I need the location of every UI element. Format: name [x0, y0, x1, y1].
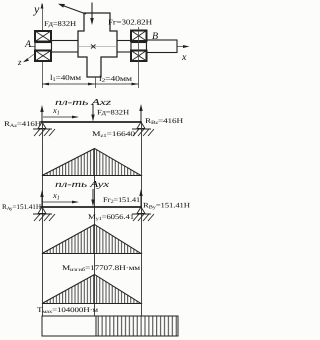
x1 dimension arrow (beam 1)	[43, 116, 79, 119]
force Fd=832N arrow (diagonal, on pulley)	[58, 4, 86, 14]
beam 1 line	[41, 121, 142, 123]
bearing B upper square	[131, 31, 147, 42]
center mark x	[91, 45, 96, 49]
support A hatching (beam 2)	[33, 207, 55, 221]
shaft output stub	[147, 40, 178, 53]
x1 dimension arrow (beam 2)	[43, 201, 79, 204]
centerline through gear	[78, 46, 117, 48]
reference line at support A	[42, 122, 44, 336]
beam 2 line	[41, 206, 142, 208]
support B hatching (beam 1)	[132, 122, 154, 136]
svg-text:l1=40мм: l1=40мм	[50, 73, 81, 83]
gear center extension line	[95, 77, 97, 88]
svg-text:y: y	[33, 2, 40, 16]
torque diagram hatched section	[96, 316, 178, 336]
svg-text:пл-ть Аxz: пл-ть Аxz	[55, 97, 112, 107]
svg-text:Fг2=151.41: Fг2=151.41	[103, 196, 141, 205]
svg-text:Fд=832Н: Fд=832Н	[44, 19, 77, 28]
gear (pulley) on shaft	[78, 13, 117, 77]
shaft left journal	[35, 43, 52, 51]
reference line at load point	[94, 148, 96, 316]
y-axis / bearing A centerline	[41, 3, 44, 89]
support B hatching (beam 2)	[132, 207, 154, 221]
shaft main section	[52, 41, 132, 53]
dimension line l2	[95, 83, 139, 86]
svg-text:Fг=302.82Н: Fг=302.82Н	[108, 18, 153, 27]
torque diagram rectangle (unhatched left part)	[42, 316, 178, 336]
bearing A lower square	[35, 51, 51, 62]
reaction RBy arrow	[139, 189, 142, 207]
bearing B lower square	[131, 51, 147, 62]
support A hatching (beam 1)	[33, 122, 55, 136]
svg-text:x: x	[181, 52, 187, 63]
My bending moment diagram (triangle)	[42, 225, 141, 254]
svg-text:My1=6056.41: My1=6056.41	[88, 213, 135, 222]
reaction RAy arrow	[40, 190, 43, 207]
M_izgib resulting moment diagram (triangle)	[42, 275, 141, 304]
svg-text:RAz=416Н: RAz=416Н	[4, 120, 41, 129]
svg-text:z: z	[17, 57, 22, 67]
force Fg=302.82N arrow (vertical down at gear)	[90, 3, 94, 26]
bearing A upper square	[35, 31, 51, 42]
reaction RBz arrow	[139, 104, 142, 122]
dimension line l1	[42, 83, 95, 86]
z-axis	[23, 46, 46, 63]
force Fg2 arrow on beam 2	[91, 189, 94, 207]
svg-text:A: A	[24, 39, 32, 50]
reaction RAz arrow	[40, 105, 43, 122]
bearing B centerline	[138, 27, 140, 88]
svg-text:Mz1=16640: Mz1=16640	[92, 130, 136, 139]
shaft centerline / x-axis	[29, 45, 190, 48]
svg-text:Fд=832Н: Fд=832Н	[97, 109, 129, 117]
shaft right journal	[131, 43, 147, 51]
reference line at support B	[141, 122, 143, 316]
svg-text:RBz=416Н: RBz=416Н	[145, 117, 183, 126]
svg-text:пл-ть Аух: пл-ть Аух	[55, 179, 109, 189]
force Fd arrow on beam 1	[91, 104, 94, 122]
Mz bending moment diagram (triangle)	[42, 149, 141, 176]
